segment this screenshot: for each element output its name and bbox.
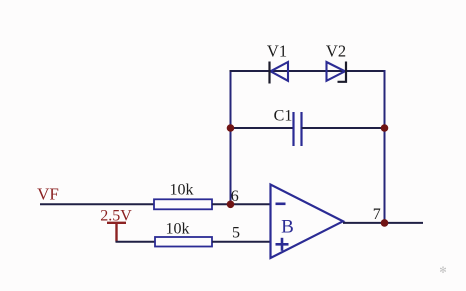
wire: R1 to op-amp inverting input (node 6) <box>212 203 272 205</box>
wire: R2 to op-amp non-inverting input (node 5) <box>212 241 272 243</box>
junction dot: right rail / C1 <box>381 124 389 132</box>
wire: op-amp output to node 7 and out <box>343 222 423 224</box>
op-amp minus input mark <box>276 203 286 206</box>
svg-text:V1: V1 <box>267 42 287 61</box>
junction dot: node 7 <box>381 219 389 227</box>
svg-text:5: 5 <box>232 225 240 242</box>
svg-text:C1: C1 <box>274 108 293 125</box>
wire: top feedback (diode row) <box>230 70 386 72</box>
svg-text:10k: 10k <box>166 220 190 237</box>
wire: left feedback rail <box>230 70 232 205</box>
svg-text:✻: ✻ <box>439 265 447 275</box>
wire: C1 row right segment <box>302 127 385 129</box>
2.5V supply tap symbol <box>107 223 126 242</box>
svg-text:V2: V2 <box>326 42 346 61</box>
diode V1 <box>270 62 289 84</box>
svg-text:B: B <box>281 217 294 238</box>
svg-text:10k: 10k <box>170 181 194 198</box>
resistor R1 (10k) <box>154 199 212 209</box>
diode V2 <box>327 62 347 82</box>
wire: VF input to R1 <box>40 203 154 205</box>
resistor R2 (10k) <box>155 237 212 247</box>
svg-text:7: 7 <box>373 206 381 223</box>
capacitor C1 <box>294 112 302 146</box>
wire: 2.5V tap to R2 <box>116 241 156 243</box>
op-amp U1 (B) <box>271 185 344 259</box>
op-amp plus input mark <box>276 238 289 251</box>
junction dot: left rail / C1 <box>227 124 235 132</box>
junction dot: node 6 <box>227 201 235 209</box>
wire: right feedback rail <box>384 70 386 224</box>
svg-text:VF: VF <box>37 185 59 204</box>
wire: C1 row left segment <box>231 127 294 129</box>
